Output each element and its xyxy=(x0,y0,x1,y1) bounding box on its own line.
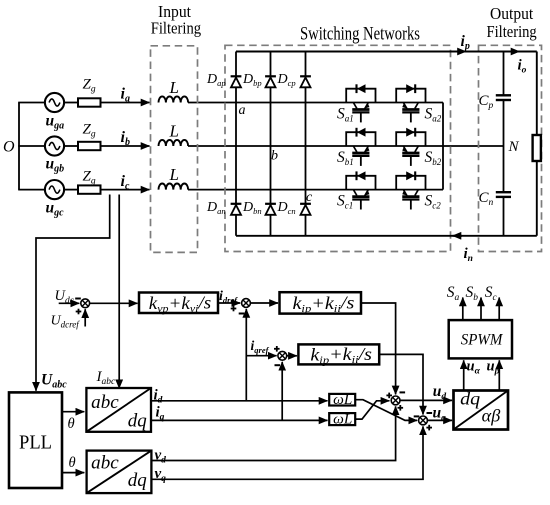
wire phase c row xyxy=(188,189,443,191)
ac source u_ga xyxy=(45,93,64,112)
svg-text:θ: θ xyxy=(68,416,75,432)
wire sum3 to current PI 2 xyxy=(287,355,297,357)
svg-text:SPWM: SPWM xyxy=(461,332,504,349)
wire neutral to source u_ga xyxy=(18,102,45,104)
svg-text:c: c xyxy=(306,190,313,205)
wire negative dc bus xyxy=(236,235,537,237)
diode D_an xyxy=(231,204,242,215)
sign minus at sum2 bottom xyxy=(239,313,245,315)
resistor Z_g phase c xyxy=(78,185,101,193)
wire current PI 2 to sum5 xyxy=(379,354,423,414)
wire positive dc bus xyxy=(236,51,537,53)
sign minus at sum5 left xyxy=(414,415,420,417)
svg-text:N: N xyxy=(508,139,520,155)
wire gate signal S_a xyxy=(462,298,464,321)
wire diode leg phase c xyxy=(305,52,307,236)
wire capacitor branch upper xyxy=(503,52,505,96)
sign minus at sum3 bottom xyxy=(275,364,281,366)
wire phase b row to node N xyxy=(188,145,504,147)
switch S_c1 xyxy=(346,171,375,209)
svg-text:Filtering: Filtering xyxy=(151,18,202,37)
diode D_cn xyxy=(300,204,311,215)
sign plus at sum4 bottom xyxy=(398,405,404,411)
current i_o arrow xyxy=(509,51,520,53)
diode D_cp xyxy=(300,76,311,87)
wire neutral to source u_gc xyxy=(18,189,45,191)
sign plus at sum2 xyxy=(231,306,237,312)
wire omega-L2 to sum4 cross xyxy=(355,401,389,419)
ac source u_gb xyxy=(45,136,64,155)
svg-text:PLL: PLL xyxy=(19,432,52,454)
node O neutral bus wire xyxy=(18,103,20,190)
switch S_b2 xyxy=(396,128,425,166)
block current PI 2 k_ip+k_ii/s xyxy=(298,344,379,364)
wire u_q to dq-ab xyxy=(428,419,452,421)
block abc-dq voltage transform xyxy=(87,451,152,494)
wire omega-L1 to sum5 cross xyxy=(355,400,417,421)
block abc-dq current transform xyxy=(86,388,151,432)
wire v_d feedforward to sum4 xyxy=(151,406,395,460)
block omega-L 2 xyxy=(329,413,355,425)
svg-text:O: O xyxy=(3,139,15,156)
wire u_d to dq-ab xyxy=(400,399,452,401)
wire switch-cell output vertical connector xyxy=(442,103,444,190)
wire Z_g to inductor with i_c arrow xyxy=(101,189,150,191)
ac source u_gc xyxy=(45,180,64,199)
wire v_q feedforward to sum5 xyxy=(151,426,423,479)
svg-text:dq: dq xyxy=(460,389,480,409)
svg-text:ωL: ωL xyxy=(333,412,352,428)
svg-text:Output: Output xyxy=(490,4,533,23)
resistor Z_g phase b xyxy=(78,142,101,150)
wire i_q feedback to sum3 xyxy=(281,362,283,421)
svg-text:b: b xyxy=(271,149,278,164)
wire source to Z_g phase a xyxy=(64,102,78,104)
wire Z_g to inductor with i_b arrow xyxy=(101,145,150,147)
diode D_bp xyxy=(265,76,276,87)
wire load right vertical xyxy=(536,52,538,236)
current i_p arrow xyxy=(455,51,466,53)
wire capacitor branch lower xyxy=(503,197,505,236)
wire current PI 1 to sum4 xyxy=(361,303,396,394)
sign minus before u_q xyxy=(427,412,433,414)
svg-text:abc: abc xyxy=(91,392,119,413)
block PLL xyxy=(9,392,62,488)
switching networks dashed box xyxy=(225,45,451,251)
summing junction sum1 Udc xyxy=(81,299,90,308)
summing junction sum5 u_q xyxy=(419,416,428,425)
wire neutral to source u_gb xyxy=(18,145,45,147)
wire U_dcref input xyxy=(84,309,86,326)
switch S_a1 xyxy=(346,84,375,122)
diode D_ap xyxy=(231,76,242,87)
svg-text:dq: dq xyxy=(128,470,148,491)
svg-text:Filtering: Filtering xyxy=(487,22,538,41)
capacitor C_n xyxy=(496,192,511,197)
svg-text:θ: θ xyxy=(69,455,76,471)
capacitor C_p xyxy=(496,95,511,100)
block dq-alphabeta transform xyxy=(454,391,509,430)
diode D_bn xyxy=(265,204,276,215)
wire theta to block1 xyxy=(62,411,84,413)
svg-text:dq: dq xyxy=(128,411,148,432)
wire diode leg phase b xyxy=(270,52,272,236)
wire u_beta to SPWM xyxy=(498,360,500,390)
resistor Z_g phase a xyxy=(78,98,101,106)
wire i_d feedback to sum2 xyxy=(245,309,247,401)
block voltage PI k_vp+k_vi/s xyxy=(139,293,218,314)
wire i_dref to sum2 xyxy=(218,302,240,304)
svg-text:L: L xyxy=(169,78,179,97)
sign plus at sum1 xyxy=(76,309,82,315)
svg-text:Switching Networks: Switching Networks xyxy=(300,23,420,44)
summing junction sum4 u_d xyxy=(391,396,400,405)
wire I_abc measurement tap xyxy=(118,195,120,389)
wire theta to block2 xyxy=(62,472,84,474)
inductor L phase c xyxy=(159,184,189,190)
current i_n arrow xyxy=(453,235,463,237)
summing junction sum3 i_q xyxy=(278,351,287,360)
wire capacitor branch middle xyxy=(503,100,505,192)
block SPWM xyxy=(449,320,512,358)
summing junction sum2 i_d xyxy=(242,299,251,308)
wire i_d to omega-L 1 xyxy=(151,400,328,402)
svg-text:αβ: αβ xyxy=(482,405,501,425)
sign plus at sum5 bottom xyxy=(426,425,432,431)
wire i_qref to sum3 xyxy=(246,355,276,357)
inductor L phase a xyxy=(159,96,189,102)
svg-text:L: L xyxy=(169,165,179,184)
output filtering dashed box xyxy=(479,45,542,251)
wire Z_g to inductor with i_a arrow xyxy=(101,102,150,104)
sign plus at sum4 left xyxy=(386,393,392,399)
svg-text:ωL: ωL xyxy=(333,392,352,408)
wire sum2 to current PI 1 xyxy=(251,302,278,304)
sign minus at sum1 xyxy=(75,298,81,300)
svg-text:a: a xyxy=(239,103,246,118)
input filtering dashed box xyxy=(151,46,198,253)
switch S_c2 xyxy=(396,171,425,209)
sign minus at sum4 top xyxy=(400,391,406,393)
block omega-L 1 xyxy=(329,394,355,406)
load resistor xyxy=(533,135,541,161)
wire diode leg phase a xyxy=(235,52,237,236)
wire i_q to omega-L 2 xyxy=(151,419,328,421)
switch S_a2 xyxy=(396,84,425,122)
wire phase a row xyxy=(188,102,443,104)
svg-text:L: L xyxy=(169,122,179,141)
wire gate signal S_c xyxy=(498,298,500,321)
inductor L phase b xyxy=(159,140,189,146)
wire gate signal S_b xyxy=(480,298,482,321)
wire source to Z_g phase b xyxy=(64,145,78,147)
wire U_dc input xyxy=(59,302,80,304)
wire source to Z_g phase c xyxy=(64,189,78,191)
svg-text:abc: abc xyxy=(91,452,119,473)
switch S_b1 xyxy=(346,128,375,166)
wire u_alpha to SPWM xyxy=(463,360,465,390)
wire sum1 to voltage PI xyxy=(90,302,138,304)
sign plus at sum3 xyxy=(274,346,280,352)
block current PI 1 k_ip+k_ii/s xyxy=(280,292,362,313)
wire U_abc measurement tap xyxy=(36,195,110,391)
